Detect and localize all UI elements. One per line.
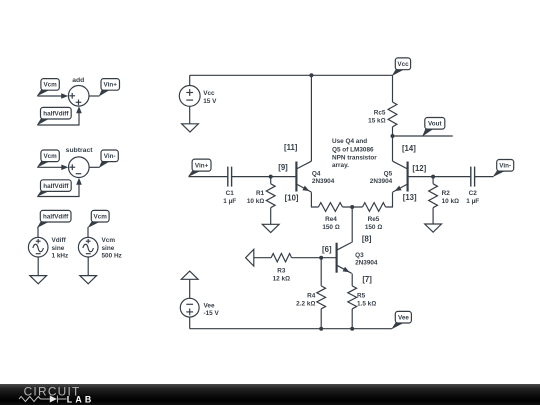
label Vcm sine 500 Hz (102, 237, 122, 259)
svg-text:[9]: [9] (278, 163, 288, 172)
voltage source V-Vcc 15V DC (179, 86, 200, 107)
ground under R1 (262, 224, 279, 232)
svg-text:halfVdiff: halfVdiff (43, 111, 69, 118)
svg-text:C1: C1 (226, 190, 235, 197)
net flag halfVdiff (add input) (38, 107, 72, 124)
net flag Vin- (subtract output) (99, 150, 118, 167)
wire halfVdiff flag to Vdiff source (37, 227, 39, 238)
svg-text:R2: R2 (442, 190, 451, 197)
wire Q4 emitter down (311, 192, 318, 207)
svg-text:Vin+: Vin+ (104, 82, 118, 89)
wire R5 to bottom rail (351, 309, 353, 329)
logo resistor-diode glyph (19, 396, 67, 403)
wire Vcm to add input (38, 95, 64, 97)
svg-text:[10]: [10] (285, 193, 299, 202)
svg-text:LAB: LAB (67, 395, 95, 405)
junction Q5 base / R2 node [12] (431, 175, 435, 179)
svg-text:Rc5: Rc5 (374, 110, 386, 117)
label Re4 150 Ohm (322, 216, 339, 231)
junction R3/R4/Q3 base node [6] (319, 256, 323, 260)
svg-text:[13]: [13] (403, 193, 417, 202)
annotation Use Q4 and Q5 of LM3086 (332, 138, 377, 169)
svg-text:Re4: Re4 (325, 216, 337, 223)
subtract block plus sign (left input) (69, 164, 75, 170)
net flag Vout (423, 118, 445, 136)
svg-text:15 kΩ: 15 kΩ (368, 117, 385, 124)
label Q4 2N3904 (312, 170, 335, 185)
svg-text:[12]: [12] (412, 164, 426, 173)
net flag Vcm (add input) (38, 79, 60, 96)
label Re5 150 Ohm (365, 216, 382, 231)
svg-text:R3: R3 (277, 267, 286, 274)
wire R4 to bottom rail (320, 309, 322, 329)
summing block "subtract" U-sub (69, 157, 90, 178)
transistor Q3 2N3904 NPN emitter arrow (343, 267, 350, 272)
svg-text:2N3904: 2N3904 (312, 178, 335, 185)
svg-text:[8]: [8] (362, 235, 372, 244)
wire C2 to Vin- (475, 176, 494, 178)
svg-text:1 µF: 1 µF (223, 198, 236, 205)
arrowhead up into subtract (76, 178, 82, 185)
svg-text:[11]: [11] (284, 143, 298, 152)
svg-text:Vin+: Vin+ (195, 162, 209, 169)
net flag Vin+ (amplifier input) (189, 159, 212, 176)
wire node 9 to R1 (270, 177, 272, 184)
arrowhead into add (61, 93, 68, 99)
label Vcc 15 V (203, 90, 217, 105)
svg-text:10 kΩ: 10 kΩ (247, 198, 264, 205)
wire Vcm source to ground (87, 257, 89, 276)
svg-text:2N3904: 2N3904 (355, 260, 378, 267)
wire R1 to ground (270, 208, 272, 225)
wire Re5 to Q5 emitter (386, 192, 393, 207)
junction node [14] (391, 134, 395, 138)
add block plus sign (bottom input) (76, 100, 82, 106)
wire Vin+ to C1 (189, 176, 228, 178)
voltage source V-Vee -15V DC (180, 298, 199, 317)
svg-text:array.: array. (332, 162, 349, 169)
svg-text:Vout: Vout (428, 121, 442, 128)
svg-text:Q3: Q3 (355, 252, 364, 259)
arrowhead into subtract (61, 165, 68, 171)
svg-text:12 kΩ: 12 kΩ (273, 275, 290, 282)
svg-text:Vdiff: Vdiff (52, 237, 67, 244)
junction R4 / bottom rail (319, 327, 323, 331)
ground under Vcm source (80, 276, 97, 284)
transistor Q4 2N3904 NPN (296, 161, 311, 192)
label Q3 2N3904 (355, 252, 378, 267)
wire ground to Vee source (189, 279, 191, 298)
net flag halfVdiff (subtract input) (38, 180, 72, 196)
wire rail to Rc5 (392, 75, 394, 102)
resistor R4 (317, 286, 326, 309)
resistor R1 (266, 184, 275, 208)
net flag halfVdiff (Vdiff source) (38, 210, 71, 227)
svg-text:Vee: Vee (204, 302, 215, 309)
svg-text:Vin-: Vin- (104, 153, 116, 160)
summing block "add" U-add (68, 86, 89, 107)
label R5 1.5 kOhm (357, 292, 376, 307)
svg-text:halfVdiff: halfVdiff (43, 183, 69, 190)
svg-text:sine: sine (52, 245, 65, 252)
ground under Vcc source (182, 124, 199, 132)
label C1 1 uF (223, 190, 236, 205)
label Vee -15 V (204, 302, 220, 317)
wire Vcc top rail (190, 74, 393, 76)
svg-text:halfVdiff: halfVdiff (43, 214, 69, 221)
subtract block minus sign (bottom input) (76, 173, 82, 175)
label C2 1 uF (466, 190, 479, 205)
svg-text:1 kHz: 1 kHz (52, 253, 69, 260)
ground under Vdiff (30, 276, 47, 284)
junction at Q4 collector / rail (309, 73, 313, 77)
svg-text:sine: sine (102, 245, 115, 252)
svg-text:-15 V: -15 V (204, 310, 220, 317)
wire Vdiff source to ground (37, 257, 39, 276)
net flag Vcm (subtract input) (38, 150, 60, 167)
wire bottom rail (190, 328, 392, 330)
label R4 2.2 kOhm (296, 292, 316, 307)
wire Q5 base to C2 (408, 176, 471, 178)
svg-text:NPN transistor: NPN transistor (332, 154, 377, 161)
resistor R2 (429, 184, 438, 208)
label Q5 2N3904 (370, 170, 393, 185)
voltage source Vdiff (sine) (28, 237, 48, 257)
svg-text:subtract: subtract (66, 147, 94, 154)
resistor Re5 (363, 203, 386, 212)
transistor Q4 2N3904 NPN emitter arrow (302, 186, 309, 191)
logo diode symbol (50, 396, 57, 403)
ground above Vee source (181, 271, 198, 279)
add block plus sign (left input) (69, 93, 75, 99)
svg-text:1.5 kΩ: 1.5 kΩ (357, 300, 376, 307)
wire subtract output to Vin- (89, 166, 99, 168)
wire Vcc source to top rail (189, 75, 191, 85)
wire Q4 collector to rail (310, 75, 312, 161)
svg-text:2N3904: 2N3904 (370, 178, 393, 185)
ground under R2 (425, 224, 442, 232)
wire add output to Vin+ (89, 95, 100, 97)
net flag Vee (392, 311, 411, 328)
svg-text:Q5 of LM3086: Q5 of LM3086 (332, 146, 374, 153)
svg-text:Use Q4 and: Use Q4 and (332, 138, 367, 145)
svg-text:2.2 kΩ: 2.2 kΩ (296, 300, 315, 307)
wire node 8 to Q3 collector (351, 207, 353, 243)
svg-text:[7]: [7] (362, 275, 372, 284)
svg-text:Vcc: Vcc (397, 61, 409, 68)
net flag Vcm (Vcm source) (88, 210, 109, 227)
wire halfVdiff to subtract bottom (38, 183, 80, 197)
transistor Q5 2N3904 NPN (mirrored) (393, 161, 408, 192)
svg-text:500 Hz: 500 Hz (102, 253, 122, 260)
svg-text:Vee: Vee (398, 315, 409, 322)
resistor Rc5 (388, 102, 397, 127)
capacitor C1 (228, 167, 232, 187)
label R2 10 kOhm (442, 190, 459, 205)
wire Q3 emitter to R5 (351, 274, 353, 286)
ground left of R3 (246, 249, 254, 266)
svg-text:Vcm: Vcm (43, 153, 57, 160)
label R1 10 kOhm (247, 190, 265, 205)
wire node 14 to Vout stub (393, 135, 453, 137)
svg-text:C2: C2 (469, 190, 478, 197)
junction C1/R1/Q4 base node [9] (269, 175, 273, 179)
svg-text:[14]: [14] (402, 144, 416, 153)
transistor Q5 2N3904 NPN (mirrored) emitter arrow (395, 186, 402, 191)
svg-text:Vcm: Vcm (102, 237, 116, 244)
net flag Vin+ (add output) (99, 79, 119, 96)
wire R2 to ground (432, 208, 434, 224)
wire node 6 to R4 (320, 258, 322, 286)
voltage source Vcm (sine) (78, 237, 98, 257)
resistor R5 (348, 286, 357, 309)
svg-text:Vcm: Vcm (43, 82, 57, 89)
wire Vee source to bottom rail (189, 317, 191, 329)
svg-text:Re5: Re5 (368, 216, 380, 223)
svg-text:Q4: Q4 (312, 170, 321, 177)
wire C1 to Q4 base (232, 176, 297, 178)
svg-text:Vcm: Vcm (94, 214, 108, 221)
wire Vcc source to ground (189, 106, 191, 124)
svg-text:Q5: Q5 (384, 170, 393, 177)
CircuitLab footer bar (0, 384, 540, 405)
wire node 14 to Q5 collector (392, 136, 394, 161)
CircuitLab logo (0, 377, 140, 405)
wire ground to R3 (254, 257, 271, 259)
svg-text:10 kΩ: 10 kΩ (442, 198, 459, 205)
svg-text:150 Ω: 150 Ω (365, 224, 382, 231)
junction emitter node [8] (350, 205, 354, 209)
svg-text:150 Ω: 150 Ω (322, 224, 339, 231)
label Vdiff sine 1 kHz (52, 237, 69, 259)
label Rc5 15 kOhm (368, 110, 386, 125)
junction R5 / bottom rail (350, 327, 354, 331)
svg-text:Vin-: Vin- (499, 163, 511, 170)
net flag Vcc (393, 58, 411, 76)
svg-text:[6]: [6] (322, 245, 332, 254)
svg-text:R4: R4 (307, 292, 316, 299)
wire R3 to Q3 base (292, 257, 337, 259)
resistor R3 (271, 254, 292, 262)
wire node 12 to R2 (432, 177, 434, 184)
svg-text:add: add (72, 77, 84, 84)
capacitor C2 (471, 167, 475, 187)
wire Re4 to centre node (343, 206, 363, 208)
wire halfVdiff to add bottom (38, 112, 80, 126)
resistor Re4 (318, 203, 342, 212)
wire Vcm to subtract input (38, 166, 64, 168)
transistor Q3 2N3904 NPN (337, 242, 352, 273)
wire Vcm flag to Vcm source (87, 227, 89, 238)
svg-text:R1: R1 (256, 190, 265, 197)
net flag Vin- (amplifier input) (493, 160, 513, 177)
arrowhead up into add (76, 106, 82, 113)
label R3 12 kOhm (273, 267, 290, 282)
svg-text:1 µF: 1 µF (466, 198, 479, 205)
svg-text:15 V: 15 V (203, 98, 217, 105)
wire Rc5 to node 14 (392, 127, 394, 136)
svg-text:R5: R5 (357, 292, 366, 299)
svg-text:Vcc: Vcc (203, 90, 215, 97)
